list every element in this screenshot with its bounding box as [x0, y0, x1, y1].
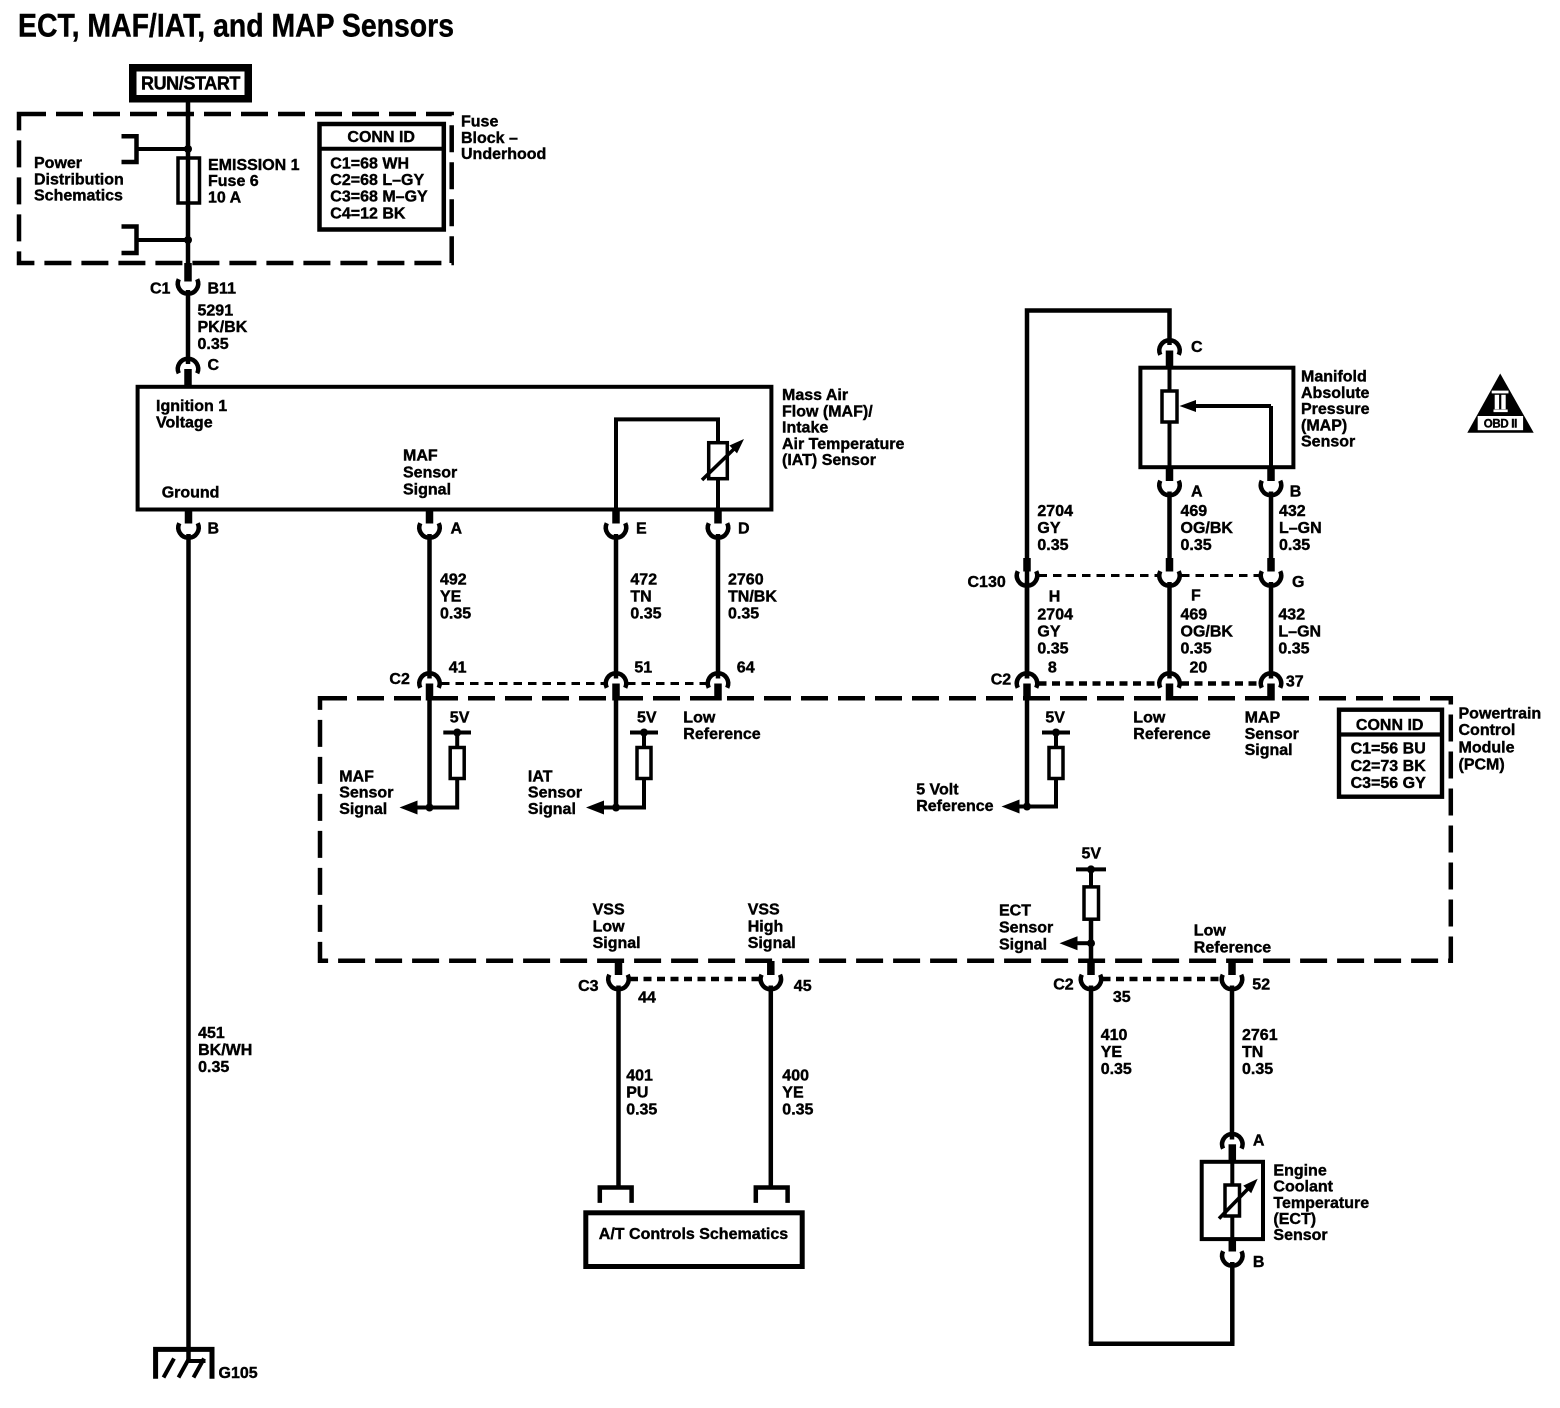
svg-text:F: F [1191, 588, 1201, 605]
label: MAF Sensor Signal [339, 768, 393, 818]
wire: resistor to MAF node [415, 779, 457, 808]
wire: pin 45 to A/T controls [769, 986, 774, 1188]
svg-text:Reference: Reference [683, 726, 760, 743]
wire: through fuse [186, 158, 191, 240]
svg-text:Reference: Reference [916, 798, 993, 815]
connector C2 pin 41 [389, 660, 466, 701]
svg-text:Low: Low [1133, 709, 1166, 726]
svg-text:C4=12 BK: C4=12 BK [330, 205, 406, 222]
label: Power Distribution Schematics [34, 155, 124, 205]
svg-text:MAF: MAF [403, 448, 438, 465]
svg-text:C2: C2 [389, 671, 410, 688]
svg-text:YE: YE [440, 588, 462, 605]
svg-text:Manifold: Manifold [1301, 369, 1367, 386]
arrow: ECT Sensor Signal [1060, 936, 1092, 950]
svg-text:0.35: 0.35 [440, 605, 471, 622]
svg-text:2704: 2704 [1037, 503, 1073, 520]
svg-text:2704: 2704 [1037, 607, 1073, 624]
wire: through MAP potentiometer [1168, 369, 1172, 467]
wire: D down to pin 64 [716, 534, 721, 679]
svg-text:35: 35 [1113, 989, 1131, 1006]
connector pin 64 [708, 660, 755, 701]
svg-text:Sensor: Sensor [1273, 1227, 1327, 1244]
wire: bottom loop [1089, 1342, 1235, 1347]
svg-text:TN/BK: TN/BK [728, 588, 777, 605]
connector B (sensor ground pin) [178, 510, 219, 538]
wire label: 492 YE 0.35 [440, 571, 471, 622]
ground G105 [156, 1349, 258, 1381]
svg-text:52: 52 [1252, 977, 1270, 994]
svg-text:C3: C3 [578, 978, 599, 995]
svg-text:(IAT) Sensor: (IAT) Sensor [782, 452, 876, 469]
power distribution terminal (lower) [122, 227, 137, 254]
svg-text:0.35: 0.35 [1278, 641, 1309, 658]
svg-text:Low: Low [683, 709, 716, 726]
svg-text:VSS: VSS [748, 902, 780, 919]
svg-text:C2=68 L–GY: C2=68 L–GY [330, 172, 424, 189]
connector pin 20 [1159, 660, 1207, 701]
power distribution terminal (upper) [122, 136, 137, 162]
svg-text:GY: GY [1037, 520, 1060, 537]
conn id table (fuse block) [320, 124, 444, 230]
label: Mass Air Flow (MAF)/Intake Air Temperature (IAT) Sensor [782, 387, 905, 469]
svg-text:D: D [738, 521, 750, 538]
svg-text:E: E [636, 521, 647, 538]
wire: RUN/START down through fuse block [186, 103, 191, 159]
svg-text:Reference: Reference [1194, 940, 1271, 957]
wire: lower terminal to fuse wire [137, 238, 189, 242]
wire: pin 51 to IAT signal node [614, 701, 619, 808]
svg-text:Sensor: Sensor [1245, 726, 1299, 743]
svg-text:45: 45 [794, 978, 812, 995]
ECT thermistor (variable resistor) [1219, 1179, 1258, 1219]
svg-text:TN: TN [630, 588, 651, 605]
junction 5 volt ref node [1023, 803, 1031, 811]
svg-text:Signal: Signal [748, 935, 796, 952]
label: Engine Coolant Temperature (ECT) Sensor [1273, 1162, 1369, 1244]
svg-text:5V: 5V [637, 709, 657, 726]
svg-text:Sensor: Sensor [528, 785, 582, 802]
svg-text:Sensor: Sensor [403, 465, 457, 482]
svg-text:10 A: 10 A [208, 189, 242, 206]
svg-text:C3=56 GY: C3=56 GY [1351, 775, 1426, 792]
wire: upper terminal to fuse wire [137, 147, 189, 151]
svg-text:20: 20 [1190, 660, 1208, 677]
connector pin 45 [761, 961, 812, 995]
junction MAF node [426, 804, 434, 812]
A/T Controls Schematics box [586, 1213, 802, 1267]
label: Manifold Absolute Pressure (MAP) Sensor [1301, 369, 1370, 451]
svg-text:432: 432 [1278, 607, 1305, 624]
svg-text:410: 410 [1101, 1027, 1128, 1044]
svg-text:B: B [1290, 484, 1302, 501]
connector C130 pin H [968, 558, 1061, 606]
label: IAT Sensor Signal [528, 768, 582, 818]
connector A (MAP) [1159, 467, 1203, 500]
svg-text:Ignition 1: Ignition 1 [156, 398, 227, 415]
wire label: 2704 GY 0.35 (upper) [1037, 503, 1073, 554]
junction ECT node [1087, 939, 1095, 947]
svg-text:51: 51 [634, 660, 652, 677]
svg-text:Voltage: Voltage [156, 414, 213, 431]
wire: F to pin 20 [1167, 582, 1172, 679]
svg-text:8: 8 [1048, 660, 1057, 677]
svg-text:401: 401 [626, 1067, 653, 1084]
connector line C3 (pins 44-45) [630, 977, 759, 982]
wiper arrow (MAP) [1180, 400, 1272, 467]
connector C2 pin 8 [991, 660, 1057, 701]
wire: ground B down to G105 [186, 534, 191, 1362]
wire label: 469 OG/BK 0.35 (upper) [1181, 503, 1234, 554]
svg-text:5 Volt: 5 Volt [916, 781, 959, 798]
wire: pin 8 to 5 volt ref node [1025, 701, 1030, 807]
5V supply terminal (IAT) [630, 709, 658, 736]
connector B (ECT sensor) [1222, 1239, 1264, 1271]
svg-text:(PCM): (PCM) [1459, 756, 1505, 773]
svg-text:PU: PU [626, 1085, 648, 1102]
wire label: 472 TN 0.35 [630, 571, 661, 622]
arrow: MAF Sensor Signal [400, 801, 418, 815]
svg-text:Sensor: Sensor [1301, 434, 1355, 451]
svg-text:0.35: 0.35 [782, 1101, 813, 1118]
svg-text:Powertrain: Powertrain [1459, 705, 1542, 722]
svg-text:Pressure: Pressure [1301, 401, 1370, 418]
svg-text:Temperature: Temperature [1273, 1195, 1369, 1212]
svg-text:YE: YE [1101, 1044, 1123, 1061]
wire label: 400 YE 0.35 [782, 1067, 813, 1118]
pull-up resistor (IAT) [637, 748, 651, 779]
connector line C130 [1039, 574, 1260, 577]
svg-text:Fuse 6: Fuse 6 [208, 173, 259, 190]
svg-text:(MAP): (MAP) [1301, 417, 1347, 434]
svg-text:Underhood: Underhood [461, 146, 546, 163]
label: Low Reference (pin 64) [683, 709, 760, 743]
wire: MAP B to C130 G [1269, 492, 1274, 559]
svg-text:OBD II: OBD II [1484, 419, 1517, 431]
svg-text:37: 37 [1286, 674, 1304, 691]
svg-text:C1=68 WH: C1=68 WH [330, 155, 409, 172]
fuse block underhood (dashed box) [19, 114, 452, 263]
wire label: 451 BK/WH 0.35 [198, 1025, 252, 1076]
svg-text:Signal: Signal [339, 801, 387, 818]
svg-text:A: A [451, 521, 463, 538]
svg-text:L–GN: L–GN [1279, 520, 1322, 537]
svg-text:C2: C2 [1053, 977, 1074, 994]
svg-text:High: High [748, 918, 784, 935]
label: Low Reference (pin 20) [1133, 709, 1210, 743]
label: MAP Sensor Signal (pin 37) [1245, 709, 1299, 759]
wire label: 2761 TN 0.35 [1242, 1027, 1278, 1078]
wire: A down to pin 41 [427, 534, 432, 679]
label: VSS Low Signal [593, 902, 641, 953]
svg-text:472: 472 [630, 571, 657, 588]
conn id table (PCM) [1339, 710, 1442, 797]
wire label: 2760 TN/BK 0.35 [728, 571, 777, 622]
MAP potentiometer resistor [1162, 391, 1177, 422]
svg-text:Sensor: Sensor [339, 785, 393, 802]
wire label: 5291 PK/BK 0.35 [198, 302, 248, 353]
svg-text:B: B [208, 521, 220, 538]
wire label: 432 L-GN 0.35 (upper) [1279, 503, 1322, 554]
svg-text:41: 41 [449, 660, 467, 677]
connector C130 pin G [1261, 558, 1305, 591]
svg-text:Flow (MAF)/: Flow (MAF)/ [782, 403, 873, 420]
connector B (MAP) [1261, 467, 1302, 500]
svg-text:G105: G105 [219, 1365, 258, 1382]
svg-text:0.35: 0.35 [1279, 537, 1310, 554]
svg-text:Low: Low [1194, 923, 1227, 940]
wire: C1 to C [186, 290, 191, 364]
label: VSS High Signal [748, 902, 796, 953]
svg-text:BK/WH: BK/WH [198, 1042, 252, 1059]
svg-text:451: 451 [198, 1025, 225, 1042]
svg-text:(ECT): (ECT) [1273, 1211, 1316, 1228]
connector C (into MAF/IAT sensor) [178, 357, 220, 387]
wire label: 410 YE 0.35 [1101, 1027, 1132, 1078]
svg-text:ECT: ECT [999, 903, 1031, 920]
connector C (MAP sensor) [1159, 339, 1203, 369]
svg-text:5291: 5291 [198, 302, 234, 319]
svg-text:Low: Low [593, 918, 626, 935]
label: MAF Sensor Signal [403, 448, 457, 499]
svg-text:EMISSION 1: EMISSION 1 [208, 157, 300, 174]
IAT thermistor R (variable resistor) [702, 439, 744, 480]
wire: H to pin 8 [1025, 582, 1030, 679]
svg-text:Coolant: Coolant [1273, 1179, 1333, 1196]
connector C130 pin F [1159, 558, 1201, 605]
5V supply terminal (5 volt reference) [1042, 709, 1070, 736]
svg-text:TN: TN [1242, 1044, 1263, 1061]
OBD II symbol [1467, 374, 1533, 433]
svg-text:Engine: Engine [1273, 1162, 1326, 1179]
label: Powertrain Control Module (PCM) [1459, 705, 1542, 773]
svg-text:0.35: 0.35 [198, 1059, 229, 1076]
label: Ignition 1 Voltage [156, 398, 227, 431]
wire: pin 41 to MAF signal node [427, 701, 432, 808]
svg-text:C: C [1191, 339, 1203, 356]
arrow: IAT Sensor Signal [586, 801, 604, 815]
wire: resistor down to pin 35 [1089, 919, 1094, 961]
svg-text:400: 400 [782, 1067, 809, 1084]
connector line C2 (pins 41-51-64) [441, 682, 707, 685]
svg-text:C130: C130 [968, 574, 1006, 591]
connector pin 52 [1222, 961, 1270, 994]
svg-text:Power: Power [34, 155, 82, 172]
svg-text:Reference: Reference [1133, 726, 1210, 743]
arrow: 5 Volt Reference [1002, 800, 1020, 814]
svg-text:A/T Controls Schematics: A/T Controls Schematics [599, 1226, 788, 1243]
wire label: 2704 GY 0.35 (lower) [1037, 607, 1073, 658]
pull-up resistor (MAF) [450, 748, 464, 779]
switch RUN/START [129, 64, 252, 103]
svg-text:5V: 5V [1045, 709, 1065, 726]
svg-text:Block –: Block – [461, 130, 518, 147]
svg-text:C2: C2 [991, 672, 1012, 689]
svg-text:CONN ID: CONN ID [347, 129, 415, 146]
5V supply terminal (ECT) [1076, 846, 1106, 874]
wire: 5V to ECT resistor [1089, 869, 1093, 887]
svg-text:Mass Air: Mass Air [782, 387, 848, 404]
connector line C2 (pins 35-52) [1103, 977, 1221, 982]
wire: MAP A to C130 F [1167, 492, 1172, 559]
wire: fuse to connector C1 [186, 240, 191, 264]
svg-text:0.35: 0.35 [1037, 641, 1068, 658]
svg-text:Absolute: Absolute [1301, 385, 1370, 402]
label: Low Reference (pin 52) [1194, 923, 1271, 957]
connector E (IAT signal pin) [606, 510, 647, 538]
svg-text:C2=73 BK: C2=73 BK [1351, 758, 1427, 775]
wire: 5V to resistor [642, 733, 646, 748]
svg-text:RUN/START: RUN/START [141, 74, 240, 94]
wire label: 469 OG/BK 0.35 (lower) [1181, 607, 1234, 658]
svg-text:IAT: IAT [528, 768, 553, 785]
svg-text:A: A [1191, 484, 1203, 501]
svg-text:GY: GY [1037, 624, 1060, 641]
svg-text:Signal: Signal [528, 801, 576, 818]
svg-text:5V: 5V [1082, 846, 1102, 863]
wire: resistor to node [1013, 779, 1056, 807]
svg-text:5V: 5V [450, 709, 470, 726]
wire: 5V to resistor [1054, 733, 1058, 748]
wire: ECT B down [1230, 1262, 1235, 1344]
connector pin 51 [606, 660, 652, 701]
svg-text:Module: Module [1459, 739, 1515, 756]
svg-text:C3=68 M–GY: C3=68 M–GY [330, 189, 428, 206]
pull-up resistor (ECT) [1084, 887, 1099, 919]
svg-text:C1: C1 [150, 280, 171, 297]
label: Fuse Block - Underhood [461, 114, 546, 164]
junction IAT node [612, 804, 620, 812]
svg-text:469: 469 [1181, 503, 1208, 520]
junction [184, 145, 192, 153]
wire: pin 35 down to loop [1089, 986, 1094, 1344]
pull-up resistor (5 volt reference) [1049, 748, 1063, 779]
connector line C2 (pins 8-20-37) [1039, 681, 1260, 686]
svg-text:Distribution: Distribution [34, 171, 124, 188]
wire: 5V to resistor [455, 733, 459, 748]
svg-text:B11: B11 [208, 280, 237, 297]
svg-text:Control: Control [1459, 722, 1516, 739]
svg-text:0.35: 0.35 [1101, 1061, 1132, 1078]
wire: E down to pin 51 [614, 534, 619, 679]
wire: pin 44 to A/T controls [616, 986, 621, 1188]
svg-text:0.35: 0.35 [1037, 537, 1068, 554]
svg-text:A: A [1253, 1133, 1265, 1150]
connector C3 pin 44 [578, 961, 656, 1007]
svg-text:ECT, MAF/IAT, and MAP Sensors: ECT, MAF/IAT, and MAP Sensors [18, 8, 454, 44]
ECT sensor box [1202, 1162, 1263, 1239]
wire: resistor to IAT node [601, 779, 644, 808]
label: 5 Volt Reference [916, 781, 993, 815]
fuse 6 EMISSION 1 10A [178, 158, 200, 203]
connector pin 37 [1261, 673, 1304, 700]
junction [184, 236, 192, 244]
5V supply terminal (MAF) [443, 709, 471, 736]
svg-text:Signal: Signal [999, 936, 1047, 953]
label: EMISSION 1 Fuse 6 10 A [208, 157, 300, 206]
svg-text:Ground: Ground [162, 485, 220, 502]
svg-text:2760: 2760 [728, 571, 764, 588]
connector D (IAT low pin) [708, 510, 750, 538]
svg-text:CONN ID: CONN ID [1356, 717, 1424, 734]
svg-text:G: G [1292, 574, 1304, 591]
svg-text:492: 492 [440, 571, 467, 588]
wire: 5V reference loop up to MAP sensor [1027, 311, 1170, 679]
svg-text:0.35: 0.35 [1242, 1061, 1273, 1078]
svg-text:0.35: 0.35 [626, 1101, 657, 1118]
svg-text:469: 469 [1181, 607, 1208, 624]
wire: through ECT thermistor [1230, 1162, 1234, 1239]
svg-text:Signal: Signal [403, 482, 451, 499]
svg-text:VSS: VSS [593, 902, 625, 919]
wire label: 432 L-GN 0.35 (lower) [1278, 607, 1321, 658]
svg-text:OG/BK: OG/BK [1181, 624, 1234, 641]
svg-text:0.35: 0.35 [1181, 537, 1212, 554]
svg-text:B: B [1253, 1254, 1265, 1271]
connector C1 (B11) [150, 263, 236, 297]
svg-text:44: 44 [638, 990, 656, 1007]
MAF/IAT sensor box [138, 387, 772, 510]
svg-text:OG/BK: OG/BK [1181, 520, 1234, 537]
wire: IAT element internal wiring [616, 419, 718, 509]
MAP sensor box [1140, 368, 1293, 468]
svg-text:0.35: 0.35 [198, 336, 229, 353]
svg-text:YE: YE [782, 1085, 804, 1102]
connector A (ECT sensor) [1222, 1133, 1265, 1163]
svg-text:Fuse: Fuse [461, 114, 498, 131]
svg-text:C: C [208, 357, 220, 374]
label: ECT Sensor Signal [999, 903, 1053, 954]
connector C2 pin 35 [1053, 961, 1131, 1006]
svg-text:Schematics: Schematics [34, 188, 123, 205]
svg-text:432: 432 [1279, 503, 1306, 520]
wire: pin 52 to ECT connector A [1230, 986, 1235, 1140]
PCM (dashed box) [320, 698, 1451, 961]
svg-text:MAP: MAP [1245, 709, 1281, 726]
terminal bracket (401 to A/T) [600, 1188, 632, 1203]
svg-text:C1=56 BU: C1=56 BU [1351, 740, 1426, 757]
wire label: 401 PU 0.35 [626, 1067, 657, 1118]
svg-text:PK/BK: PK/BK [198, 319, 248, 336]
connector A (MAF signal pin) [419, 510, 462, 538]
svg-text:0.35: 0.35 [630, 605, 661, 622]
svg-text:2761: 2761 [1242, 1027, 1278, 1044]
svg-text:0.35: 0.35 [728, 605, 759, 622]
svg-text:MAF: MAF [339, 768, 374, 785]
svg-text:Intake: Intake [782, 420, 828, 437]
svg-text:Air Temperature: Air Temperature [782, 436, 905, 453]
svg-text:Signal: Signal [1245, 742, 1293, 759]
svg-text:Signal: Signal [593, 935, 641, 952]
svg-text:L–GN: L–GN [1278, 624, 1321, 641]
terminal bracket (400 to A/T) [756, 1188, 788, 1203]
svg-text:Sensor: Sensor [999, 920, 1053, 937]
wire: G to pin 37 [1269, 582, 1274, 679]
svg-text:H: H [1049, 589, 1061, 606]
svg-text:64: 64 [737, 660, 755, 677]
svg-text:0.35: 0.35 [1181, 641, 1212, 658]
